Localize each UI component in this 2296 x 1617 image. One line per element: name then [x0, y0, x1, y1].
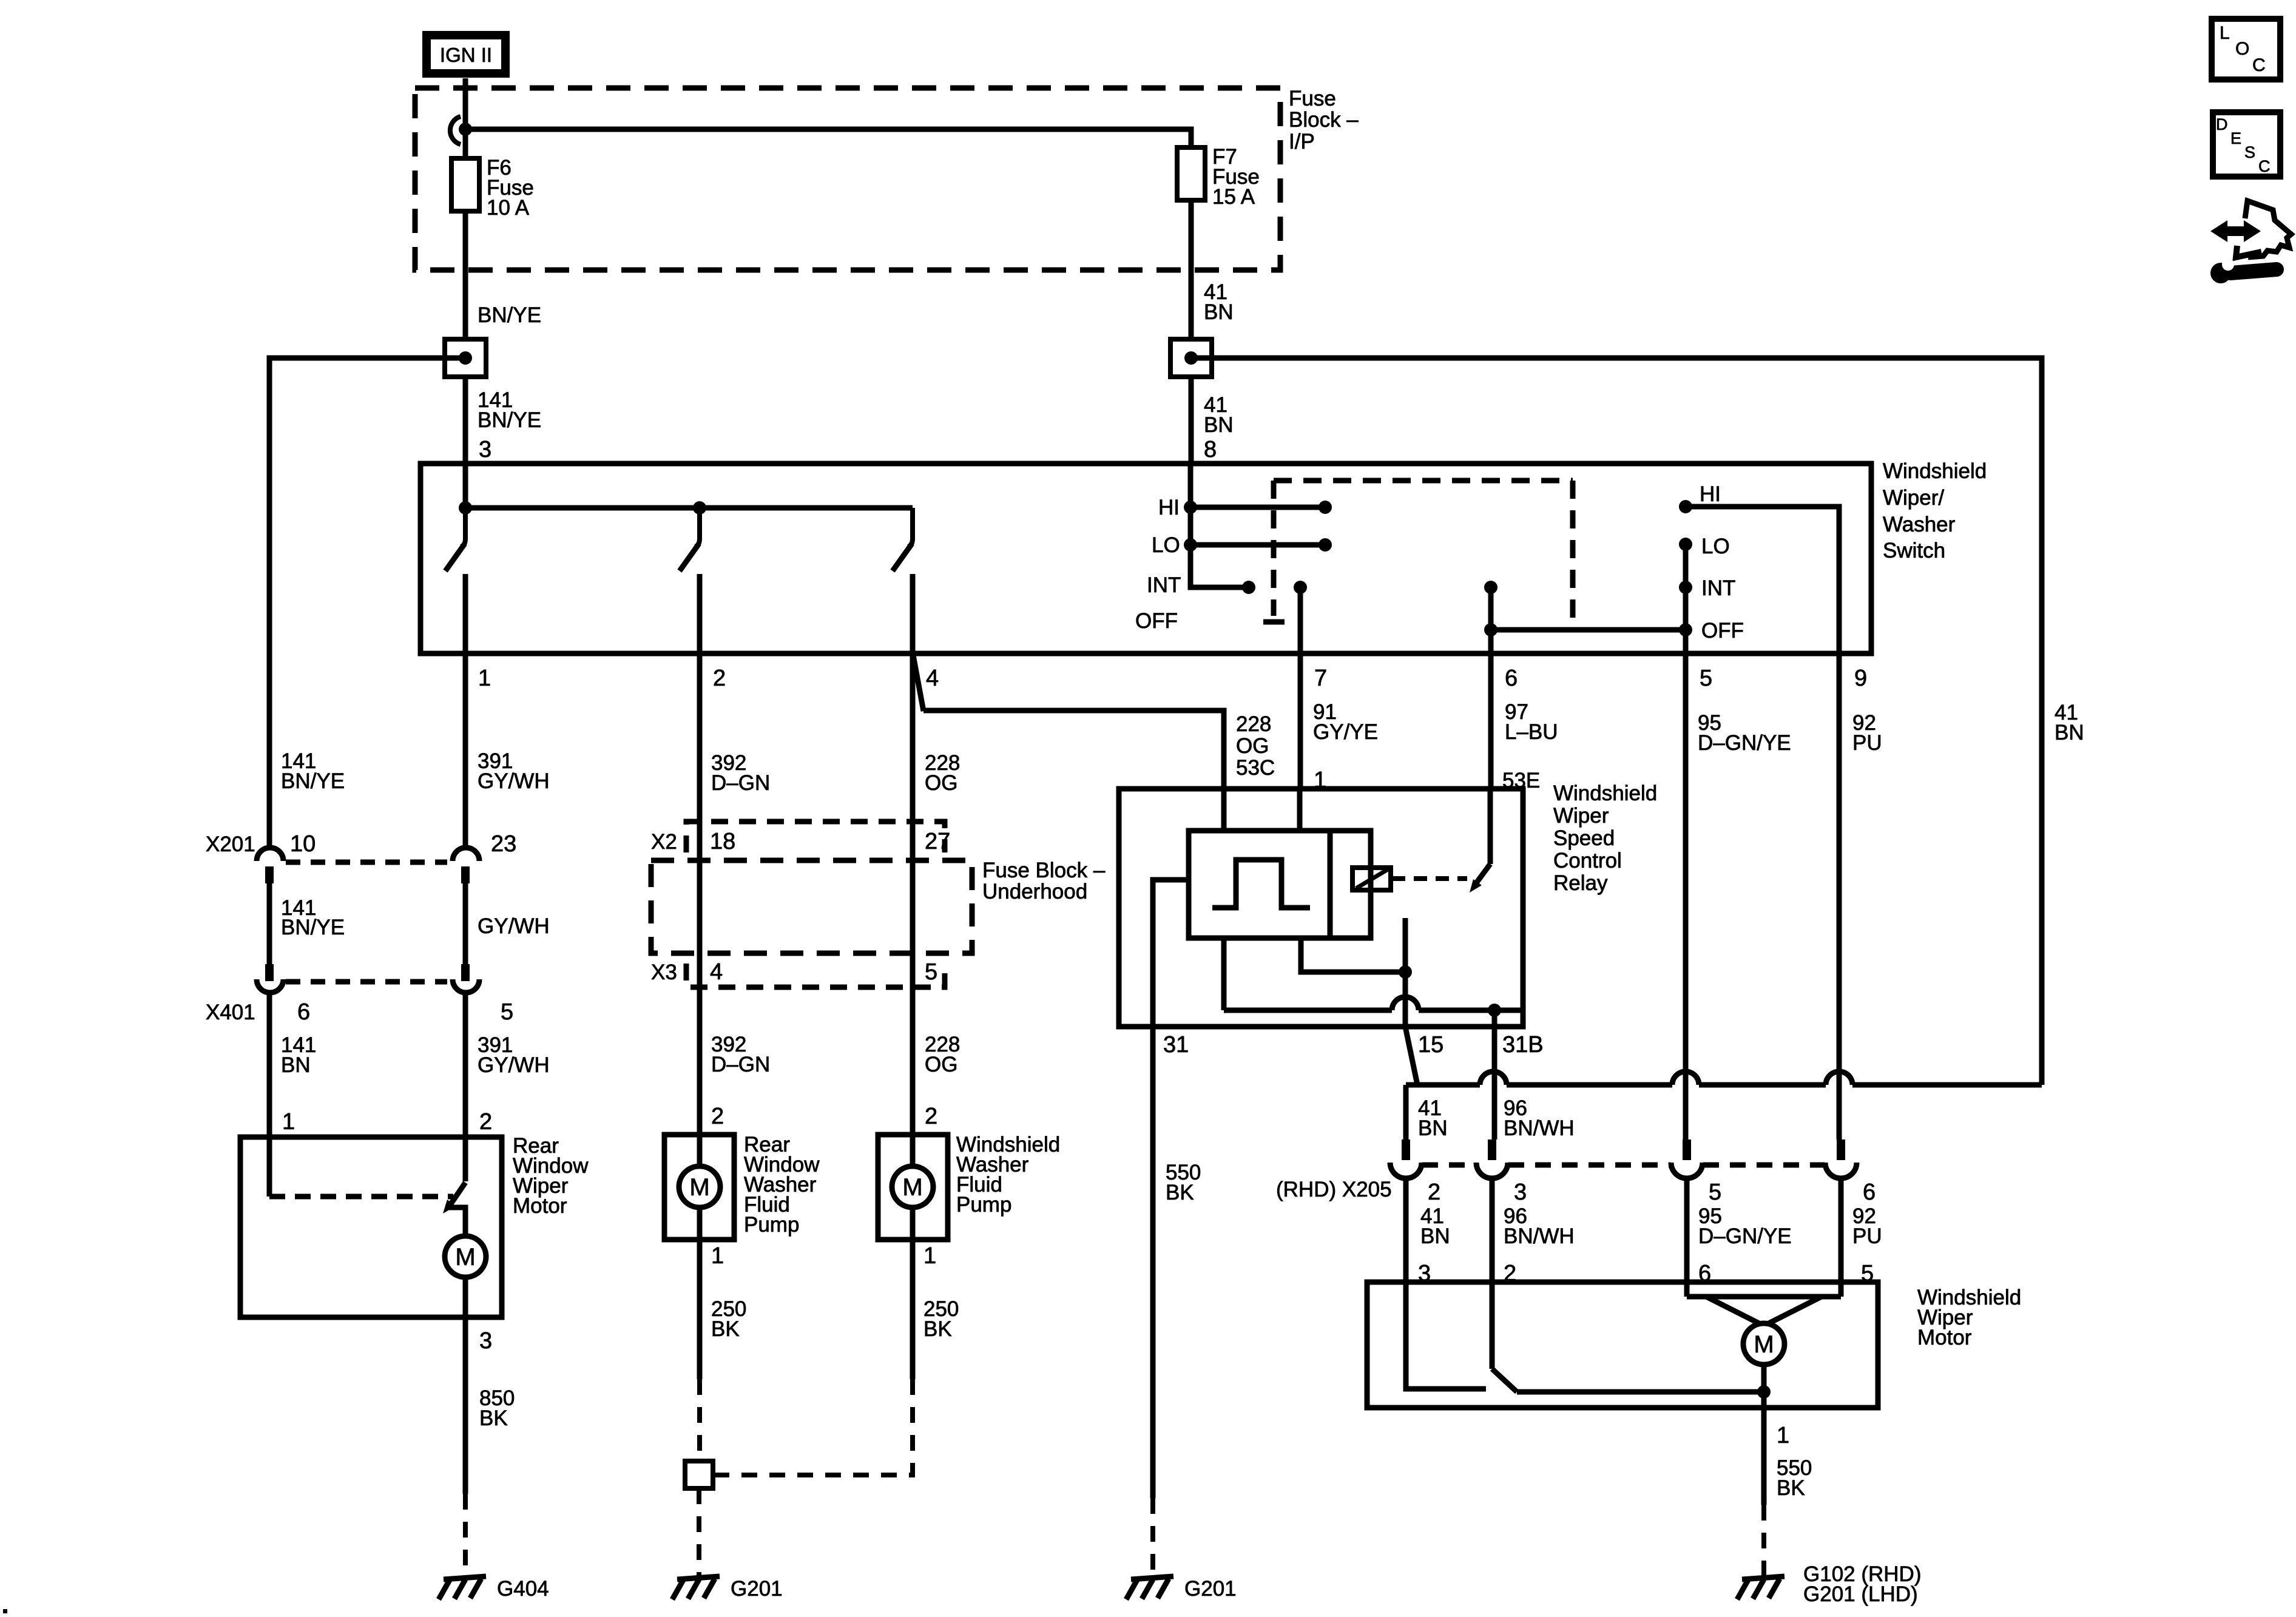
svg-text:Speed: Speed	[1553, 826, 1615, 850]
svg-text:3: 3	[1514, 1180, 1527, 1205]
label 41 BN right column	[2055, 701, 2084, 744]
svg-text:9: 9	[1854, 666, 1867, 691]
label 41 BN	[1204, 280, 1234, 324]
ground G102/G201	[1737, 1562, 1921, 1606]
wire pin 5 to X205	[1683, 653, 1689, 1139]
label 141 BN/YE left column	[281, 749, 345, 793]
switch contact 4	[893, 508, 913, 653]
label 392 D-GN lower	[711, 1033, 770, 1076]
wire 53E internal	[1488, 789, 1493, 864]
connector X205 terminal 5	[1671, 1139, 1703, 1178]
svg-text:2: 2	[711, 1104, 724, 1129]
svg-text:1: 1	[711, 1243, 724, 1269]
label 96 BN/WH below	[1504, 1204, 1575, 1248]
node junction S1	[459, 351, 472, 365]
svg-text:BN: BN	[1204, 413, 1234, 437]
wire dashed to G201 relay	[1150, 1498, 1155, 1576]
service icon arrow	[2210, 220, 2261, 242]
svg-text:18: 18	[710, 829, 735, 854]
label 550 BK motor	[1777, 1456, 1812, 1500]
svg-text:BK: BK	[1777, 1476, 1805, 1500]
svg-text:X401: X401	[206, 1001, 255, 1024]
svg-text:BK: BK	[479, 1406, 508, 1430]
park switch dashed link	[269, 1194, 453, 1200]
rear window washer pump box	[664, 1135, 734, 1240]
label 391 GY/WH lower	[478, 1033, 550, 1077]
svg-text:228: 228	[1236, 712, 1271, 736]
svg-text:HI: HI	[1700, 482, 1721, 506]
wire dashed to G404	[463, 1494, 468, 1576]
svg-text:M: M	[1754, 1331, 1774, 1358]
wire wiper common to pin 5	[1683, 544, 1689, 653]
svg-text:INT: INT	[1701, 576, 1735, 600]
svg-text:BN/WH: BN/WH	[1504, 1116, 1575, 1140]
svg-text:L: L	[2220, 23, 2230, 43]
svg-text:Motor: Motor	[513, 1194, 567, 1218]
node HI left junction	[1184, 501, 1197, 514]
svg-text:OG: OG	[925, 1053, 957, 1076]
fuse block I/P dashed box	[415, 88, 1280, 270]
wire dashed right pump to splice	[713, 1379, 913, 1475]
wire motor to junction	[1761, 1365, 1767, 1392]
node bus junction B	[693, 501, 706, 515]
relay coil symbol	[1352, 868, 1391, 890]
svg-text:BK: BK	[711, 1317, 740, 1341]
svg-text:Fuse Block –: Fuse Block –	[982, 859, 1106, 882]
node pin 7 contact	[1294, 581, 1307, 594]
svg-text:Fuse: Fuse	[1289, 87, 1336, 110]
wire F7 to connector	[1189, 200, 1194, 339]
svg-text:10: 10	[290, 831, 316, 857]
label 95 D-GN/YE below	[1698, 1204, 1792, 1248]
wire timer output	[1301, 938, 1405, 972]
svg-text:8: 8	[1204, 437, 1217, 462]
connector X3 bracket	[686, 964, 945, 987]
node junction S2	[1184, 351, 1198, 365]
windshield wiper motor label	[1917, 1286, 2021, 1349]
label 250 BK left	[711, 1297, 746, 1341]
wire dashed to G102	[1761, 1505, 1766, 1576]
park switch blade	[443, 1183, 465, 1214]
wire 250 BK right	[910, 1240, 916, 1379]
svg-text:OG: OG	[1236, 734, 1269, 758]
connector X401 terminal left	[257, 964, 283, 993]
wire feed to F7	[465, 129, 1191, 147]
svg-text:PU: PU	[1852, 1224, 1882, 1248]
wire 53C internal top	[1221, 789, 1227, 831]
wire 41 BN below X205	[1403, 1178, 1409, 1282]
fuse block underhood dashed box	[651, 860, 972, 953]
svg-text:GY/WH: GY/WH	[478, 1053, 550, 1077]
svg-text:1: 1	[282, 1109, 295, 1135]
label 92 PU below	[1852, 1204, 1882, 1248]
svg-text:HI: HI	[1158, 496, 1180, 519]
pulse waveform	[1212, 860, 1310, 908]
connector junction box left	[445, 339, 486, 377]
label 95 D-GN/YE	[1698, 711, 1791, 755]
svg-text:BN: BN	[1204, 300, 1234, 324]
node feed junction	[459, 123, 472, 136]
svg-text:M: M	[689, 1174, 709, 1201]
label 391 GY/WH column	[478, 749, 550, 793]
svg-text:D: D	[2216, 115, 2228, 133]
label 92 PU	[1852, 711, 1882, 755]
label 392 D-GN upper	[711, 751, 770, 795]
connector X201 terminal left	[257, 848, 283, 883]
svg-text:BN/WH: BN/WH	[1504, 1224, 1575, 1248]
rear motor label	[513, 1134, 589, 1218]
svg-text:M: M	[902, 1174, 922, 1201]
svg-text:6: 6	[297, 999, 310, 1025]
wire 141 BN/YE to switch pin 3	[463, 377, 468, 464]
wire switch pin4 down	[910, 653, 916, 1135]
switch contact 2	[680, 508, 700, 653]
motor M rear washer	[679, 1135, 720, 1240]
motor M windshield washer	[892, 1135, 933, 1240]
ground G201 center	[672, 1576, 783, 1601]
svg-text:10 A: 10 A	[487, 196, 530, 220]
relay timer box	[1189, 831, 1330, 938]
wire park feed internal	[267, 1137, 272, 1197]
node HI right	[1679, 500, 1692, 513]
svg-text:15: 15	[1418, 1032, 1443, 1058]
wire pin1 internal top	[1297, 789, 1303, 831]
node motor ground junction	[1757, 1385, 1771, 1399]
svg-text:2: 2	[1428, 1180, 1440, 1205]
label 250 BK right	[923, 1297, 959, 1341]
LOC legend box	[2212, 19, 2280, 79]
wire switch pin2 down	[697, 653, 703, 1135]
wire pin 1 motor ground	[1761, 1392, 1767, 1505]
svg-text:GY/YE: GY/YE	[1313, 720, 1378, 744]
windshield wiper motor box	[1367, 1282, 1878, 1408]
wire 141 BN/YE branch left	[269, 358, 465, 848]
svg-text:E: E	[2230, 129, 2241, 147]
wire switch pin1 to X201	[463, 653, 468, 848]
node 31B junction	[1488, 1004, 1501, 1017]
fuse F7 15A	[1177, 147, 1205, 200]
svg-text:BN: BN	[2055, 721, 2084, 744]
connector X205 terminal 6	[1825, 1139, 1857, 1178]
svg-text:Control: Control	[1553, 849, 1622, 873]
connector X401 terminal right	[453, 964, 479, 993]
svg-text:OFF: OFF	[1701, 619, 1744, 643]
svg-text:O: O	[2235, 39, 2249, 59]
wiper arm dashed box	[1263, 481, 1573, 627]
node INT right	[1679, 581, 1692, 594]
wire 95 D-GN/YE below X205	[1684, 1178, 1690, 1282]
svg-text:L–BU: L–BU	[1505, 720, 1558, 744]
svg-text:(RHD) X205: (RHD) X205	[1276, 1178, 1392, 1201]
wire 391 GY/WH mid	[463, 883, 468, 964]
wire 228 OG branch	[913, 655, 1224, 789]
windshield washer pump label	[956, 1133, 1060, 1217]
label 850 BK	[479, 1386, 515, 1430]
wire 41 BN to switch pin 8	[1189, 377, 1194, 464]
node OFF junction	[1484, 623, 1497, 636]
svg-text:31B: 31B	[1502, 1032, 1544, 1058]
svg-text:Washer: Washer	[1883, 513, 1956, 536]
wire F6 to connector	[463, 211, 468, 339]
wire OFF row	[1491, 627, 1686, 633]
label 228 OG lower	[925, 1033, 960, 1076]
relay label	[1553, 781, 1657, 895]
svg-text:23: 23	[491, 831, 516, 857]
relay contact post	[1403, 918, 1408, 1027]
svg-text:1: 1	[1777, 1423, 1789, 1448]
svg-text:D–GN: D–GN	[711, 771, 770, 795]
wire 31B down	[1492, 1010, 1497, 1139]
connector X201 dashed	[286, 860, 447, 865]
node pin 6 contact	[1484, 581, 1497, 594]
wire HI right to pin 9	[1686, 507, 1839, 653]
node HI left end	[1319, 501, 1332, 514]
wire 141 BN lower	[267, 993, 272, 1137]
wire pin 8 internal	[1190, 464, 1249, 587]
fuse block I/P label	[1289, 87, 1359, 154]
clip symbol at feed junction	[450, 116, 461, 144]
svg-text:2: 2	[713, 666, 726, 691]
connector X401 dashed	[286, 979, 447, 985]
svg-text:OG: OG	[925, 771, 957, 795]
fuse F6 10A	[451, 158, 479, 211]
svg-text:Windshield: Windshield	[1883, 459, 1987, 483]
windshield wiper/washer switch box	[420, 464, 1871, 653]
svg-text:5: 5	[1709, 1180, 1721, 1205]
svg-text:X201: X201	[206, 832, 255, 856]
svg-text:G404: G404	[497, 1577, 549, 1601]
wire low speed internal	[1492, 1282, 1764, 1392]
park switch contact	[445, 1207, 465, 1236]
svg-text:C: C	[2252, 55, 2266, 75]
wire 391 GY/WH lower	[463, 993, 468, 1137]
svg-text:3: 3	[479, 437, 491, 462]
label 141 BN/YE mid	[281, 896, 345, 939]
wire 41 BN to X205 pin 2	[1403, 1085, 1409, 1139]
label 91 GY/YE	[1313, 700, 1378, 744]
svg-text:6: 6	[1863, 1180, 1876, 1205]
fuse block underhood label	[982, 859, 1106, 903]
svg-text:5: 5	[1700, 666, 1712, 691]
service icon lower arm	[2236, 246, 2261, 257]
svg-text:Wiper: Wiper	[1553, 804, 1609, 828]
wire park contact internal	[1406, 1282, 1486, 1389]
relay coil box	[1330, 831, 1371, 938]
svg-text:4: 4	[710, 959, 723, 985]
svg-text:3: 3	[479, 1328, 492, 1354]
ground G404	[439, 1576, 549, 1601]
svg-text:Windshield: Windshield	[1553, 781, 1657, 805]
wire 92 PU below X205	[1838, 1178, 1844, 1282]
motor M rear	[445, 1236, 486, 1277]
wire 41 BN horizontal run	[1406, 1072, 2042, 1085]
label 41 BN	[1204, 393, 1234, 437]
svg-text:Relay: Relay	[1553, 871, 1608, 895]
wire motor to pin 3	[463, 1277, 468, 1494]
svg-text:BN: BN	[1418, 1116, 1448, 1140]
ground G201 relay	[1126, 1576, 1237, 1601]
svg-text:Motor: Motor	[1917, 1326, 1972, 1349]
svg-text:BN/YE: BN/YE	[478, 303, 541, 327]
svg-text:X2: X2	[651, 830, 677, 854]
label 141 BN/YE	[478, 388, 541, 432]
switch title label	[1883, 459, 1987, 562]
wire 41 BN branch right	[1191, 358, 2042, 1085]
wire dashed left pump to splice	[697, 1379, 702, 1461]
connector X201 terminal right	[453, 848, 479, 883]
svg-text:GY/WH: GY/WH	[478, 914, 550, 938]
label 141 BN	[281, 1033, 316, 1077]
svg-text:31: 31	[1163, 1032, 1189, 1058]
node IGN II	[427, 35, 505, 73]
svg-text:15 A: 15 A	[1212, 185, 1255, 209]
svg-text:6: 6	[1505, 666, 1518, 691]
svg-text:G201: G201	[731, 1577, 783, 1601]
svg-text:Pump: Pump	[744, 1213, 799, 1237]
svg-text:GY/WH: GY/WH	[478, 769, 550, 793]
label 41 BN below	[1420, 1204, 1450, 1248]
wire pin 7	[1298, 587, 1303, 789]
wire pin 31 internal	[1153, 880, 1189, 1027]
node INT left end	[1242, 581, 1255, 594]
connector junction box right	[1170, 339, 1212, 377]
label 96 BN/WH	[1504, 1096, 1575, 1140]
wire switch feed bus	[463, 464, 468, 508]
label 97 L-BU	[1505, 700, 1558, 744]
svg-text:2: 2	[925, 1104, 937, 1129]
DESC legend box	[2213, 112, 2280, 177]
svg-text:Switch: Switch	[1883, 539, 1945, 562]
svg-text:C: C	[2258, 157, 2271, 175]
svg-text:OFF: OFF	[1135, 609, 1178, 633]
svg-text:5: 5	[925, 959, 937, 985]
splice square	[685, 1461, 713, 1488]
wire dashed splice to G201	[697, 1488, 701, 1576]
svg-text:LO: LO	[1701, 535, 1730, 558]
svg-text:INT: INT	[1147, 573, 1181, 597]
svg-text:1: 1	[923, 1243, 936, 1269]
label 550 BK	[1166, 1161, 1201, 1204]
connector X2 bracket	[686, 822, 945, 852]
service icon part outline	[2245, 201, 2291, 257]
windshield washer pump box	[878, 1135, 948, 1240]
node OFF right	[1679, 623, 1692, 636]
svg-text:2: 2	[479, 1109, 492, 1135]
label 41 BN	[1418, 1096, 1448, 1140]
relay blade	[1470, 864, 1490, 893]
svg-text:IGN II: IGN II	[440, 44, 492, 66]
wire LO row left	[1190, 542, 1325, 548]
svg-text:D–GN: D–GN	[711, 1053, 770, 1076]
svg-text:X3: X3	[651, 960, 677, 984]
label 228 OG 53C	[1236, 712, 1275, 780]
svg-text:1: 1	[478, 666, 491, 691]
svg-text:7: 7	[1314, 666, 1327, 691]
label 228 OG upper	[925, 751, 960, 795]
wire 250 BK left	[697, 1240, 703, 1379]
wire from IGN II to F6	[463, 78, 468, 158]
svg-text:BK: BK	[923, 1317, 952, 1341]
svg-text:BN: BN	[281, 1053, 311, 1077]
svg-text:D–GN/YE: D–GN/YE	[1698, 1224, 1792, 1248]
switch contact 1	[445, 508, 465, 653]
svg-text:Wiper/: Wiper/	[1883, 486, 1944, 510]
connector X205 dashed	[1422, 1163, 1825, 1168]
svg-text:BN/YE: BN/YE	[281, 769, 345, 793]
svg-text:Underhood: Underhood	[982, 880, 1087, 903]
connector X205 terminal 2	[1390, 1139, 1422, 1178]
node LO left junction	[1184, 538, 1197, 552]
node timer output junction	[1399, 965, 1412, 979]
svg-text:PU: PU	[1852, 731, 1882, 755]
relay coil dashed link	[1392, 876, 1467, 881]
node LO right	[1679, 538, 1692, 551]
svg-text:Block –: Block –	[1289, 108, 1359, 132]
svg-text:BN: BN	[1420, 1224, 1450, 1248]
wire 550 BK relay ground	[1150, 1027, 1156, 1498]
rear window wiper motor box	[240, 1137, 502, 1317]
svg-text:D–GN/YE: D–GN/YE	[1698, 731, 1791, 755]
wire 96 BN/WH below X205	[1490, 1178, 1495, 1282]
wire pin 6	[1488, 587, 1494, 789]
wire relay common rail	[1224, 997, 1523, 1010]
svg-text:BN/YE: BN/YE	[281, 916, 345, 939]
svg-text:BN/YE: BN/YE	[478, 408, 541, 432]
svg-text:S: S	[2244, 143, 2255, 161]
wire motor feed internal	[463, 1137, 468, 1181]
node LO left end	[1319, 538, 1332, 552]
service icon wrench	[2210, 258, 2277, 283]
windshield wiper speed control relay box	[1119, 789, 1523, 1027]
node bus junction A	[459, 501, 472, 515]
svg-text:G201 (LHD): G201 (LHD)	[1803, 1582, 1918, 1606]
svg-text:LO: LO	[1152, 533, 1180, 557]
svg-text:Pump: Pump	[956, 1193, 1011, 1217]
svg-text:27: 27	[925, 829, 950, 854]
svg-text:G201: G201	[1184, 1577, 1237, 1601]
svg-text:I/P: I/P	[1289, 130, 1315, 154]
svg-text:4: 4	[926, 666, 939, 691]
wire HI row left	[1190, 505, 1325, 510]
wire pin 15 slant	[1405, 1027, 1417, 1085]
wire pin 9 to X205	[1837, 653, 1842, 1139]
rear washer pump label	[744, 1133, 820, 1237]
wire timer left output	[1221, 938, 1227, 1010]
connector X205 terminal 3	[1476, 1139, 1508, 1178]
svg-text:5: 5	[501, 999, 513, 1025]
svg-text:53C: 53C	[1236, 756, 1275, 780]
wire motor V feed	[1687, 1282, 1841, 1324]
page mark	[3, 1609, 7, 1613]
motor M windshield wiper	[1743, 1323, 1784, 1365]
svg-text:M: M	[455, 1244, 475, 1271]
wire 141 BN/YE mid	[267, 883, 272, 964]
svg-text:BK: BK	[1166, 1181, 1194, 1204]
